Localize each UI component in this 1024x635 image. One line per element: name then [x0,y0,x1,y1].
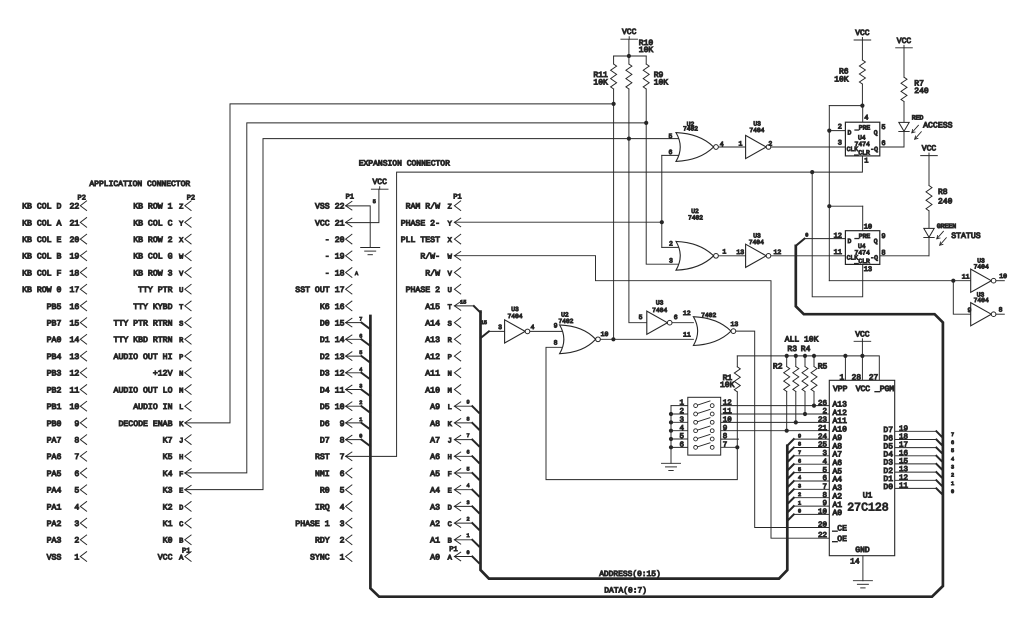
svg-text:KB ROW 3: KB ROW 3 [133,269,172,278]
svg-text:ADDRESS(0:15): ADDRESS(0:15) [599,570,661,579]
svg-text:PA6: PA6 [47,453,62,462]
svg-text:6: 6 [668,149,672,156]
svg-text:240: 240 [914,87,929,96]
svg-text:16: 16 [899,449,909,458]
junction dots [612,102,616,106]
svg-text:4: 4 [74,503,79,512]
svg-text:PA5: PA5 [47,470,62,479]
svg-text:8: 8 [723,432,728,441]
svg-text:U: U [448,287,452,295]
svg-text:10: 10 [335,403,345,412]
svg-text:PB0: PB0 [47,420,62,429]
svg-text:RDY: RDY [315,537,330,546]
LED red ACCESS [899,122,909,131]
wire A11 line switch to EPROM pin 23 [714,421,829,423]
svg-text:5: 5 [951,448,954,454]
switch contact row 2 [694,412,698,416]
svg-text:10K: 10K [834,75,849,84]
svg-text:6: 6 [340,470,345,479]
svg-text:K7: K7 [163,437,173,446]
power VCC at expansion connector [371,188,388,190]
wire A13 line switch to EPROM pin 26 [714,405,829,407]
svg-text:VSS: VSS [315,203,330,212]
svg-text:D6: D6 [320,420,330,429]
svg-text:15: 15 [335,320,345,329]
wire CLR branch to second 7474 CLR pin 13 [812,172,863,297]
svg-text:3: 3 [466,500,469,506]
wire EPROM address pins A9-A0 from bus entries [794,438,830,440]
resistor R11 pullup leads down to U2 pin 10 node [613,56,615,64]
svg-text:8: 8 [822,491,827,500]
svg-text:VCC: VCC [922,145,937,154]
svg-text:17: 17 [899,442,908,450]
inverter U3 7404 pins 9 8 [971,303,992,326]
ground at expansion VSS [361,247,380,249]
switch contact row 1 [694,404,698,408]
svg-text:A4: A4 [430,487,440,496]
wire U3 pin 12 output to second 7474 CLK pin 11 [771,255,846,257]
svg-text:1: 1 [798,500,801,506]
svg-text:15: 15 [69,320,79,329]
svg-text:Q: Q [874,130,878,137]
svg-text:2: 2 [951,473,954,479]
svg-text:S: S [448,321,452,329]
svg-text:3: 3 [359,384,362,390]
svg-text:J: J [448,438,452,446]
svg-text:17: 17 [69,286,79,295]
svg-text:D: D [848,238,852,245]
svg-text:10K: 10K [593,78,608,87]
svg-text:6: 6 [881,140,885,148]
svg-text:9: 9 [466,400,469,406]
svg-text:5: 5 [466,466,469,472]
resistor R5 lead wires [813,356,815,367]
wire DECODE ENAB to R11 pullup net [185,104,614,423]
svg-text:7: 7 [359,317,362,323]
svg-text:16: 16 [69,303,79,312]
svg-text:7402: 7402 [688,215,703,222]
flip-flop U4 7474 first [845,122,879,156]
svg-text:E: E [448,488,452,496]
resistor R6 lead wires [861,40,863,60]
svg-text:P1: P1 [449,546,457,554]
svg-text:L: L [179,404,183,412]
svg-text:8: 8 [74,437,79,446]
svg-text:RST: RST [315,453,330,462]
svg-text:R/W: R/W [425,269,440,278]
svg-text:4: 4 [359,367,362,373]
power VCC above R10 [621,38,638,40]
svg-text:5: 5 [679,433,684,441]
svg-text:J: J [179,438,183,446]
wire EPROM GND pin 14 to ground [862,556,864,581]
svg-text:4: 4 [340,503,345,512]
svg-text:A14: A14 [425,320,440,329]
svg-text:11: 11 [834,249,842,257]
wire pullup rail VCC to R2 R3 R4 R5 VPP VCC_PGM [737,356,879,380]
svg-text:11: 11 [962,274,970,281]
svg-text:N: N [179,371,183,379]
bus entries for D0-D7 from expansion connector [361,323,370,330]
svg-text:-Q: -Q [870,146,878,153]
svg-text:GREEN: GREEN [937,223,957,230]
svg-text:2: 2 [822,407,827,416]
svg-text:4: 4 [720,141,724,148]
svg-text:PHASE 1: PHASE 1 [295,520,329,529]
svg-text:VSS: VSS [47,553,62,562]
svg-text:IRQ: IRQ [315,503,330,512]
svg-text:8: 8 [466,416,469,422]
svg-text:PHASE 2-: PHASE 2- [401,219,440,228]
svg-text:2: 2 [74,537,79,546]
svg-text:1: 1 [679,400,684,408]
svg-text:0: 0 [798,509,801,515]
ground at EPROM pin 14 [853,580,872,582]
svg-text:PA1: PA1 [47,503,62,512]
svg-text:4: 4 [951,456,954,462]
wire K3 to R10 pullup / U2 pin 5 [185,139,681,490]
svg-text:Z: Z [179,204,183,212]
svg-text:19: 19 [899,424,908,433]
svg-text:7: 7 [74,453,79,462]
svg-text:4: 4 [864,114,868,122]
svg-text:13: 13 [731,321,739,328]
svg-text:K0: K0 [163,537,173,546]
wire A12 line switch to EPROM pin 2 [714,413,829,415]
svg-text:K4: K4 [163,470,173,479]
svg-text:KB COL A: KB COL A [22,219,61,228]
svg-text:A13: A13 [425,336,440,345]
svg-text:DECODE ENAB: DECODE ENAB [118,420,172,429]
svg-text:_PRE: _PRE [854,233,871,240]
svg-text:16: 16 [335,303,345,312]
svg-text:4: 4 [679,425,684,433]
svg-text:R0: R0 [320,487,330,496]
svg-text:7404: 7404 [652,307,667,314]
wire U2 pin 10 output node to U2 pin 11 [600,338,693,340]
svg-text:D: D [448,504,452,512]
wire RST net to 7474 CLR pins [346,156,863,457]
svg-text:-: - [325,236,330,245]
svg-text:A8: A8 [430,420,440,429]
svg-text:KB COL B: KB COL B [22,253,61,262]
svg-text:10: 10 [723,415,733,424]
svg-text:VCC: VCC [855,330,870,339]
wire A15 bus entry to U3 pin 3 input [489,330,505,332]
wire first 7474 PRE pin 4 riser [862,106,864,123]
svg-text:7404: 7404 [507,313,522,320]
resistor R10 [626,64,632,89]
svg-text:C: C [448,521,452,529]
svg-text:F: F [179,471,183,479]
bus entry D0 to second 7474 [796,239,805,246]
svg-text:21: 21 [818,424,828,433]
inverter U3 7404 pins 5 6 [647,311,668,334]
svg-text:18: 18 [335,269,345,278]
wire PHASE 2- net horizontal [454,221,661,223]
power VCC above R6 [854,39,871,41]
svg-text:1: 1 [738,141,742,148]
switch common wires to ground [670,406,672,464]
svg-text:VPP: VPP [833,385,848,394]
svg-text:10: 10 [864,224,872,232]
svg-text:PA3: PA3 [47,537,62,546]
resistor R8 [926,186,932,211]
svg-text:9: 9 [74,420,79,429]
svg-text:6: 6 [674,314,678,321]
svg-text:D0: D0 [883,483,893,492]
svg-text:PA4: PA4 [47,487,62,496]
svg-text:7: 7 [340,453,345,462]
flip-flop U4 7474 second [845,231,879,265]
svg-text:4: 4 [822,458,827,466]
svg-text:1: 1 [951,481,954,487]
svg-text:9: 9 [340,420,345,429]
svg-text:21: 21 [335,219,345,228]
svg-text:U3: U3 [656,300,664,307]
svg-text:3: 3 [798,484,801,490]
top VCC rail over R11 R10 R9 [614,55,647,57]
svg-text:T: T [448,304,452,312]
svg-text:_CLR: _CLR [854,150,871,157]
resistor R9 [643,64,649,89]
svg-text:_CE: _CE [832,524,848,533]
svg-text:PB1: PB1 [47,403,62,412]
bus entries to EPROM A9-A0 [788,439,794,445]
resistor R6 [859,60,865,84]
svg-text:-: - [325,253,330,262]
svg-text:10: 10 [601,331,609,338]
svg-text:3: 3 [951,464,954,470]
svg-text:A2: A2 [430,520,440,529]
switch contact row 6 [694,446,698,450]
svg-text:23: 23 [818,416,828,425]
svg-text:10: 10 [999,273,1007,280]
svg-text:KB COL E: KB COL E [22,236,61,245]
svg-text:R/W-: R/W- [420,253,440,262]
svg-text:KB COL D: KB COL D [22,203,61,212]
svg-text:20: 20 [335,236,345,245]
svg-text:20: 20 [69,236,79,245]
wire R/W- net to EPROM _OE [454,256,829,539]
svg-text:PB3: PB3 [47,370,62,379]
bus entry A15 tap to U3 pin 3 [481,331,489,338]
svg-text:7: 7 [466,433,469,439]
svg-text:13: 13 [864,266,872,274]
svg-text:18: 18 [69,269,79,278]
svg-text:STATUS: STATUS [951,232,981,241]
wire switch pin 8 stub [714,438,738,440]
svg-text:7: 7 [798,450,801,456]
svg-text:27: 27 [869,373,879,382]
EPROM U1 27C128 [829,380,894,555]
svg-text:1: 1 [864,158,868,166]
svg-text:B: B [179,538,183,546]
svg-text:5: 5 [881,124,885,132]
svg-text:14: 14 [335,336,345,345]
svg-text:9: 9 [554,322,558,329]
svg-text:TTY KBD RTRN: TTY KBD RTRN [114,336,173,345]
svg-text:_OE: _OE [832,535,848,544]
svg-text:VCC: VCC [158,553,173,562]
svg-text:A0: A0 [833,509,843,518]
svg-text:KB COL F: KB COL F [22,269,61,278]
svg-text:K5: K5 [163,453,173,462]
svg-text:KB COL C: KB COL C [133,219,172,228]
svg-text:8: 8 [554,339,558,346]
svg-text:A3: A3 [430,503,440,512]
svg-text:3: 3 [340,520,345,529]
svg-text:9: 9 [881,233,885,241]
svg-text:15: 15 [460,300,466,306]
svg-text:PLL TEST: PLL TEST [401,236,440,245]
wire R9 branch down to U2 pin 3 [646,123,681,264]
svg-text:3: 3 [838,139,842,147]
svg-text:+12V: +12V [153,370,173,379]
svg-text:4: 4 [798,475,801,481]
svg-text:PHASE 2: PHASE 2 [406,286,440,295]
svg-text:10: 10 [818,508,828,517]
svg-text:A9: A9 [430,403,440,412]
svg-text:KB ROW 2: KB ROW 2 [133,236,172,245]
resistor R1 [734,367,740,392]
svg-text:D4: D4 [320,386,330,395]
wire U3 pin 6 output to U2 pin 12 [672,322,694,324]
inverter U3 7404 pins 11 10 [971,269,992,292]
svg-text:PA7: PA7 [47,437,62,446]
svg-text:M: M [179,387,183,395]
svg-text:13: 13 [335,353,345,362]
svg-text:4: 4 [466,483,469,489]
wire U2 pin 4 output to U3 pin 1 [718,146,745,148]
svg-text:3: 3 [669,258,673,265]
svg-text:Q: Q [874,238,878,245]
svg-text:A6: A6 [430,453,440,462]
svg-text:14: 14 [850,558,860,567]
wire U3 pin 2 output to first 7474 CLK pin 3 [771,146,846,148]
svg-text:KB ROW 1: KB ROW 1 [133,203,172,212]
svg-text:11: 11 [69,386,79,395]
svg-text:12: 12 [834,232,842,240]
svg-text:7: 7 [822,484,827,492]
svg-text:L: L [448,404,452,412]
svg-text:AUDIO OUT HI: AUDIO OUT HI [114,353,173,362]
svg-text:5: 5 [373,199,376,205]
svg-text:5: 5 [668,133,672,140]
svg-text:22: 22 [818,531,827,540]
svg-text:TTY KYBD: TTY KYBD [133,303,172,312]
svg-text:PB7: PB7 [47,320,62,329]
ground at switch common [662,462,681,464]
svg-text:7: 7 [723,442,728,450]
inverter U3 7404 pins 3 4 [505,320,526,343]
svg-text:1: 1 [340,553,345,562]
svg-text:20: 20 [818,520,828,529]
svg-text:5: 5 [74,487,79,496]
svg-text:D2: D2 [320,353,330,362]
wire switch pin 7 to R1 [714,446,737,448]
svg-text:5: 5 [340,487,345,496]
svg-text:P2: P2 [78,194,86,202]
wire U3 pin 4 output to U2 pin 9 [530,330,566,332]
svg-text:PB5: PB5 [47,303,62,312]
inverter U3 7404 pins 13 12 [746,244,767,267]
svg-text:4: 4 [531,324,535,331]
svg-text:6: 6 [798,458,801,464]
svg-text:8: 8 [999,307,1003,314]
svg-text:SYNC: SYNC [310,553,330,562]
DIP switch block [688,397,721,455]
svg-text:P: P [448,354,452,362]
svg-text:6: 6 [74,470,79,479]
svg-text:R8: R8 [938,188,948,197]
svg-text:5: 5 [822,467,827,475]
svg-text:1: 1 [840,373,845,382]
svg-text:-Q: -Q [870,254,878,261]
svg-text:0: 0 [466,550,469,556]
svg-text:9: 9 [822,499,827,508]
wire PHASE 2- branch to U2 pins 6 and 2 [661,155,663,247]
wire EPROM data pins D7-D0 to bus entries [895,430,937,432]
svg-text:1: 1 [722,248,726,255]
svg-text:SST OUT: SST OUT [295,286,329,295]
svg-text:21: 21 [69,219,79,228]
NOR gate U2 7402 pins 2 3 1 [676,241,714,270]
svg-text:2: 2 [679,407,684,416]
svg-text:K3: K3 [163,487,173,496]
wire U2 pin 1 output to U3 pin 13 [718,255,745,257]
svg-text:7: 7 [951,432,954,438]
svg-text:5: 5 [639,314,643,321]
svg-text:D: D [848,130,852,137]
svg-text:S: S [179,321,183,329]
inverter U3 7404 pins 1 2 [746,135,767,158]
svg-text:28: 28 [852,373,862,382]
svg-text:13: 13 [736,249,744,256]
svg-text:24: 24 [818,432,828,441]
svg-text:15: 15 [899,458,909,466]
svg-text:H: H [179,454,183,462]
power VCC above EPROM [854,340,871,342]
svg-text:VCC _PGM: VCC _PGM [856,385,895,394]
wire VCC pin 21 to VCC symbol [346,189,379,222]
svg-text:PB4: PB4 [47,353,62,362]
svg-text:D5: D5 [320,403,330,412]
svg-text:12: 12 [69,370,79,379]
wire R10 branch down to U3 pin 5 input [629,139,647,323]
wire K4 to R9 pullup net [185,123,646,473]
wire VSS pin 22 to ground [346,206,371,248]
svg-text:VCC: VCC [855,29,870,38]
svg-text:PB2: PB2 [47,386,62,395]
svg-text:9: 9 [967,307,971,314]
svg-text:U1: U1 [863,492,873,501]
switch contact row 5 [694,437,698,441]
svg-text:8: 8 [881,249,885,257]
svg-text:_CLR: _CLR [854,258,871,265]
svg-text:10K: 10K [720,381,735,390]
switch contact row 3 [694,420,698,424]
svg-text:P1: P1 [453,193,461,201]
svg-text:D: D [179,504,183,512]
resistor R4 lead wires [804,356,806,367]
svg-text:15: 15 [481,320,487,326]
svg-text:Z: Z [448,204,452,212]
svg-text:8: 8 [798,442,801,448]
svg-text:8: 8 [340,437,345,446]
wire R1 net to U2 pin 8 [736,356,738,367]
svg-text:6: 6 [679,441,684,450]
